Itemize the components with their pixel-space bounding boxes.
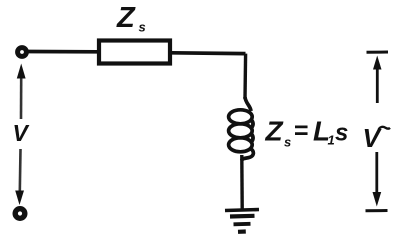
svg-text:s: s xyxy=(284,135,291,150)
svg-text:s: s xyxy=(139,20,146,35)
source arrow up toward top terminal xyxy=(17,64,26,120)
ground xyxy=(225,210,259,232)
inductor L1 coil xyxy=(229,97,254,161)
measurement bar V'' bottom xyxy=(366,209,388,212)
svg-text:Z: Z xyxy=(116,2,136,34)
label V'' xyxy=(363,123,391,153)
wire from top terminal to box xyxy=(29,50,98,54)
wire from box to corner xyxy=(172,51,246,55)
svg-text:s: s xyxy=(335,120,348,147)
measurement arrow V'' down xyxy=(373,152,382,207)
svg-text:Z: Z xyxy=(265,116,284,147)
label Zs = L1 s (inductor impedance) xyxy=(265,116,349,150)
measurement bar V'' top xyxy=(367,51,389,54)
label Zs (above box) xyxy=(116,2,146,35)
svg-text:V: V xyxy=(13,120,30,146)
wire vertical drop to inductor xyxy=(243,54,247,99)
svg-text:=: = xyxy=(294,117,309,145)
terminal bottom-left xyxy=(15,209,25,219)
source arrow down toward bottom terminal xyxy=(15,149,24,205)
impedance box Zs xyxy=(99,41,170,64)
terminal top-left xyxy=(18,48,27,57)
measurement arrow V'' up xyxy=(373,56,382,104)
svg-text:1: 1 xyxy=(328,133,335,148)
label V (source) xyxy=(13,120,30,146)
wire inductor to ground xyxy=(240,155,244,209)
